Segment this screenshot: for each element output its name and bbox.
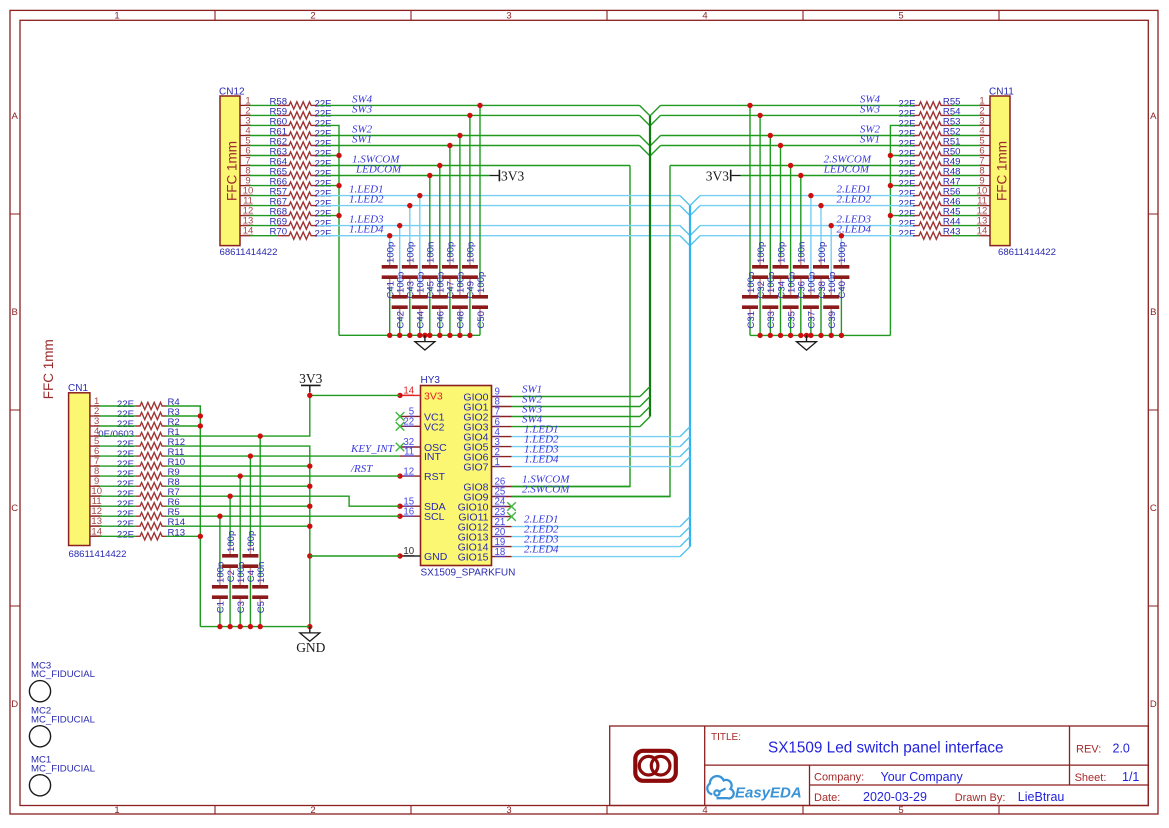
svg-text:MC_FIDUCIAL: MC_FIDUCIAL [31, 714, 96, 725]
resistor R47 value 22E [898, 177, 960, 190]
capacitor C50 value 100p [472, 272, 488, 329]
wire GIO13 to bus [512, 536, 681, 538]
capacitor C47 value 100p [442, 242, 458, 299]
svg-text:FFC 1mm: FFC 1mm [225, 141, 240, 201]
svg-text:1: 1 [495, 457, 500, 468]
wire column C2 [229, 496, 231, 626]
capacitor C34 value 100p [773, 242, 789, 299]
bus entry 1.LED1 left [680, 196, 690, 206]
svg-text:2: 2 [310, 10, 315, 21]
pin 22 VC2 (left) [396, 417, 445, 434]
resistor R67 value 22E [270, 197, 332, 210]
wire column C38 [820, 206, 822, 336]
wire column C31 [749, 105, 751, 335]
svg-text:C33: C33 [766, 311, 777, 329]
svg-text:1.LED4: 1.LED4 [349, 224, 384, 236]
resistor R10 value 22E [117, 457, 185, 470]
wire GIO0 to bus [512, 396, 641, 398]
svg-text:68611414422: 68611414422 [69, 549, 127, 560]
wire column C48 [459, 136, 461, 336]
pin 16 SCL (left) [397, 506, 444, 523]
bus entry GIO3 [640, 417, 650, 427]
resistor R63 value 22E [270, 147, 332, 160]
wire GIO7 to bus [512, 466, 681, 468]
svg-text:12: 12 [403, 466, 414, 477]
svg-text:2.SWCOM: 2.SWCOM [522, 483, 570, 495]
resistor R44 value 22E [898, 217, 961, 230]
wire column C3 [239, 476, 241, 626]
wire column C1 [219, 516, 221, 626]
resistor R56 value 22E [898, 187, 960, 200]
junction dot column C45 top [427, 173, 432, 178]
svg-text:2020-03-29: 2020-03-29 [863, 790, 927, 804]
svg-text:2.LED4: 2.LED4 [524, 543, 559, 555]
svg-text:5: 5 [898, 10, 903, 21]
wire GIO6 to bus [512, 456, 681, 458]
connector CN11 [977, 87, 1056, 259]
company logo (two rings) [635, 751, 676, 781]
svg-text:FFC 1mm: FFC 1mm [995, 141, 1010, 201]
capacitor C49 value 100p [462, 242, 478, 299]
svg-text:100p: 100p [776, 242, 787, 263]
wire column C33 [769, 136, 771, 336]
capacitor C41 value 100p [382, 242, 398, 299]
resistor R13 value 22E [117, 527, 185, 540]
svg-text:22: 22 [403, 417, 414, 428]
resistor R2 value 22E [117, 417, 180, 430]
svg-text:A: A [1150, 111, 1157, 122]
svg-text:3V3: 3V3 [706, 169, 729, 184]
connector CN12 [219, 87, 277, 259]
svg-text:GND: GND [296, 640, 325, 655]
capacitor C46 value 100p [432, 272, 448, 329]
svg-text:SW3: SW3 [860, 103, 881, 115]
resistor R1 value 0E/0603 [98, 427, 180, 440]
svg-text:/RST: /RST [350, 463, 373, 475]
fiducial MC2 MC_FIDUCIAL [29, 706, 95, 747]
wire LEDCOM (right segment) [741, 175, 914, 177]
svg-text:LieBtrau: LieBtrau [1018, 790, 1065, 804]
bus entry GIO4 [680, 427, 690, 437]
svg-text:Company:: Company: [814, 772, 864, 784]
capacitor C40 value 100p [833, 242, 849, 299]
svg-text:3V3: 3V3 [299, 371, 322, 386]
svg-text:100p: 100p [386, 242, 397, 263]
op-amp: IC HY3 SX1509_SPARKFUN body [421, 375, 516, 579]
svg-text:1/1: 1/1 [1122, 770, 1139, 784]
svg-text:LEDCOM: LEDCOM [823, 164, 870, 176]
resistor R6 value 22E [117, 497, 180, 510]
wire column C39 [830, 226, 832, 336]
svg-text:C1: C1 [216, 601, 227, 613]
wire 2.LED4 (right segment) [700, 235, 913, 237]
capacitor C38 value 100p [813, 242, 829, 299]
wire GIO1 to bus [512, 406, 641, 408]
ground (left cap bank) [415, 335, 435, 350]
fiducial MC3 MC_FIDUCIAL [29, 660, 95, 701]
pin 9 GIO0 (right) [463, 387, 511, 404]
svg-text:CN1: CN1 [68, 383, 88, 394]
svg-text:100p: 100p [817, 242, 828, 263]
resistor R50 value 22E [898, 147, 960, 160]
svg-text:2.LED2: 2.LED2 [836, 194, 871, 206]
svg-text:100p: 100p [756, 242, 767, 263]
wire right cap bank ground rail [750, 334, 890, 336]
junction dot column C44 top [417, 193, 422, 198]
bus entry SW3 left [640, 115, 651, 126]
bus entry 1.LED3 left [680, 226, 690, 236]
svg-text:4: 4 [702, 805, 707, 816]
junction dot column C50 top [477, 103, 482, 108]
svg-text:Date:: Date: [814, 792, 840, 804]
svg-text:D: D [1150, 699, 1157, 710]
bus entry 2.LED1 right [690, 196, 700, 206]
resistor R49 value 22E [898, 157, 960, 170]
pin 26 GIO8 (right) [463, 477, 511, 494]
svg-text:C50: C50 [476, 311, 487, 329]
pin 7 GIO2 (right) [463, 407, 511, 424]
pin 10 GND (left) [397, 546, 447, 563]
bus entry 2.LED2 right [690, 206, 700, 216]
bus entry GIO13 [680, 527, 690, 537]
svg-text:RST: RST [424, 471, 446, 483]
junction dot 3V3 [307, 393, 312, 398]
wire 2.LED3 (right segment) [700, 225, 913, 227]
resistor R52 value 22E [898, 127, 960, 140]
wire SW3 (right segment) [661, 114, 914, 116]
resistor R5 value 22E [117, 507, 180, 520]
svg-text:INT: INT [424, 451, 442, 463]
svg-text:100n: 100n [797, 242, 808, 263]
wire 2.SWCOM vertical to GIO9 [512, 166, 671, 497]
resistor R45 value 22E [898, 207, 960, 220]
power flag 3V3 (top) [299, 371, 322, 393]
wire column C32 [759, 115, 761, 335]
pin 19 GIO14 (right) [458, 537, 512, 554]
svg-text:100n: 100n [426, 242, 437, 263]
wire column C50 [479, 105, 481, 335]
svg-text:MC_FIDUCIAL: MC_FIDUCIAL [31, 763, 96, 774]
svg-text:100p: 100p [476, 272, 487, 293]
svg-text:1.LED2: 1.LED2 [349, 194, 384, 206]
wire GIO5 to bus [512, 446, 681, 448]
resistor R4 value 22E [117, 397, 181, 410]
svg-text:SW1: SW1 [352, 134, 372, 146]
capacitor C1 value 100p [212, 562, 228, 614]
svg-text:3V3: 3V3 [424, 390, 443, 402]
wire column C4 [249, 456, 251, 626]
wire SW1 (left segment) [317, 145, 640, 147]
wire GIO14 to bus [512, 546, 681, 548]
bus entry SW2 left [640, 136, 651, 147]
svg-text:C: C [1150, 503, 1157, 514]
ground (right cap bank) [797, 335, 817, 350]
svg-text:22E: 22E [117, 529, 134, 540]
svg-text:3: 3 [506, 10, 511, 21]
capacitor C36 value 100n [793, 242, 809, 299]
wire SW3 (left segment) [317, 114, 640, 116]
capacitor C32 value 100p [752, 242, 768, 299]
blue bus trunk [689, 206, 691, 547]
resistor R59 value 22E [270, 106, 332, 119]
power flag 3V3 (right LEDCOM) [706, 169, 741, 184]
wire column C35 [790, 166, 792, 336]
junction dots right ground rail [757, 333, 844, 338]
bus entry SW1 left [640, 146, 651, 157]
pin 1 GIO7 (right) [463, 457, 511, 474]
wire GIO2 to bus [512, 416, 641, 418]
fiducial MC1 MC_FIDUCIAL [29, 755, 95, 796]
pin 21 GIO12 (right) [458, 517, 512, 534]
resistor R3 value 22E [117, 407, 180, 420]
bus entry GIO7 [680, 457, 690, 467]
svg-text:Your Company: Your Company [881, 770, 964, 784]
resistor R60 value 22E [270, 116, 332, 129]
capacitor C45 value 100n [422, 242, 438, 299]
resistor R68 value 22E [270, 207, 332, 220]
resistor R9 value 22E [117, 467, 180, 480]
junction dot column C1 top [217, 514, 222, 519]
svg-text:68611414422: 68611414422 [998, 247, 1056, 258]
wire GIO3 to bus [512, 426, 641, 428]
wire CN12 pin stubs [250, 105, 278, 235]
resistor R12 value 22E [117, 437, 185, 450]
wire GIO15 to bus [512, 556, 681, 558]
svg-text:1.LED4: 1.LED4 [524, 453, 559, 465]
svg-text:C46: C46 [436, 311, 447, 329]
bus entry GIO2 [640, 407, 650, 417]
pin 4 GIO4 (right) [463, 427, 511, 444]
wire GIO8 stub [512, 486, 631, 488]
svg-text:REV:: REV: [1076, 744, 1101, 756]
bus entry SW3 right [650, 115, 661, 126]
junction dot column C49 top [467, 113, 472, 118]
svg-text:GIO15: GIO15 [458, 552, 489, 564]
resistor R57 value 22E [270, 187, 332, 200]
capacitor C2 value 100p [222, 531, 238, 583]
svg-text:SX1509_SPARKFUN: SX1509_SPARKFUN [421, 568, 516, 579]
svg-text:4: 4 [702, 10, 707, 21]
svg-text:SCL: SCL [424, 511, 445, 523]
svg-text:3: 3 [506, 805, 511, 816]
wire CN1 ground pins 5,7,9,11,13 [166, 446, 310, 626]
resistor R54 value 22E [898, 106, 961, 119]
capacitor C35 value 100p [783, 272, 799, 329]
wire CN11 ground pins 3,6,9,12 [890, 125, 913, 335]
wire column C49 [469, 115, 471, 335]
svg-text:100n: 100n [256, 562, 267, 583]
svg-text:C: C [11, 503, 18, 514]
svg-text:C37: C37 [807, 311, 818, 329]
svg-text:C42: C42 [396, 311, 407, 329]
wire CN1 pin stubs [100, 406, 136, 536]
svg-text:C31: C31 [746, 311, 757, 329]
svg-text:SW3: SW3 [352, 103, 373, 115]
wire GIO4 to bus [512, 436, 681, 438]
junction dot column C43 top [407, 203, 412, 208]
svg-text:18: 18 [495, 547, 506, 558]
pin 20 GIO13 (right) [458, 527, 512, 544]
wire KEY_INT (R11 to INT) [166, 455, 400, 457]
resistor R62 value 22E [270, 137, 332, 150]
svg-text:A: A [12, 111, 19, 122]
wire SW4 (right segment) [661, 104, 914, 106]
resistor R58 value 22E [270, 96, 332, 109]
junction dot column C48 top [457, 133, 462, 138]
svg-text:C39: C39 [827, 311, 838, 329]
svg-text:B: B [12, 307, 18, 318]
capacitor C5 value 100n [252, 562, 268, 614]
capacitor C31 value 100p [742, 272, 758, 329]
pin 15 SDA (left) [397, 496, 445, 513]
bus entry SW1 right [650, 146, 661, 157]
bus entry 1.LED4 left [680, 236, 690, 246]
resistor R14 value 22E [117, 517, 186, 530]
capacitor C44 value 100p [412, 272, 428, 329]
svg-text:22E: 22E [898, 229, 915, 240]
wire 1.SWCOM horizontal [317, 165, 630, 167]
resistor R43 value 22E [898, 227, 960, 240]
svg-text:22E: 22E [315, 229, 332, 240]
resistor R70 value 22E [270, 227, 332, 240]
junction dot column C35 top [788, 163, 793, 168]
wire LEDCOM (left segment) [317, 175, 490, 177]
resistor R66 value 22E [270, 177, 332, 190]
svg-text:CN11: CN11 [989, 87, 1014, 98]
green bus trunk [649, 116, 651, 417]
wire 2.SWCOM horizontal [670, 165, 913, 167]
bus entry 2.LED4 right [690, 236, 700, 246]
svg-text:C3: C3 [236, 601, 247, 613]
svg-text:C44: C44 [416, 310, 427, 328]
svg-text:GND: GND [424, 551, 448, 563]
junction dots CN11 ground vertical [888, 153, 893, 219]
resistor R48 value 22E [898, 167, 960, 180]
junction dot column C40 top [839, 233, 844, 238]
junction dot column C42 top [397, 223, 402, 228]
bus entry 2.LED3 right [690, 226, 700, 236]
junction dots CN1 right ground vertical [307, 463, 312, 629]
bus entry GIO15 [680, 547, 690, 557]
capacitor C48 value 100p [452, 272, 468, 329]
junction dot column C3 top [238, 473, 243, 478]
svg-text:100p: 100p [466, 242, 477, 263]
wire 3V3 net row (R1 to flag) [166, 395, 400, 436]
wire CN11 pin stubs [952, 105, 980, 235]
svg-text:1: 1 [114, 805, 119, 816]
resistor R61 value 22E [270, 127, 332, 140]
wire column C46 [439, 166, 441, 336]
wire column C43 [409, 206, 411, 336]
svg-text:2.0: 2.0 [1113, 742, 1130, 756]
wire 1.LED2 (left segment) [317, 205, 680, 207]
svg-text:MC_FIDUCIAL: MC_FIDUCIAL [31, 669, 96, 680]
pin 12 RST (left) [397, 466, 445, 483]
wire 2.LED1 (right segment) [700, 195, 913, 197]
svg-text:100p: 100p [406, 242, 417, 263]
junction dot column C41 top [387, 233, 392, 238]
title block [610, 726, 1149, 806]
junction dot column C33 top [768, 133, 773, 138]
bus entry 1.LED2 left [680, 206, 690, 216]
svg-text:2: 2 [310, 805, 315, 816]
power flag 3V3 (left LEDCOM) [490, 169, 525, 184]
EasyEDA logo [707, 776, 801, 801]
svg-text:100p: 100p [226, 531, 237, 552]
capacitor C39 value 100p [823, 272, 839, 329]
capacitor C37 value 100p [803, 272, 819, 329]
svg-text:1: 1 [114, 10, 119, 21]
svg-text:Drawn By:: Drawn By: [955, 792, 1006, 804]
wire GIO9 stub [512, 496, 671, 498]
pin 2 GIO6 (right) [463, 447, 511, 464]
wire SW2 (right segment) [661, 135, 914, 137]
bus entry GIO1 [640, 397, 650, 407]
junction dot column C46 top [437, 163, 442, 168]
svg-text:B: B [1150, 307, 1156, 318]
connector CN1 [68, 383, 126, 560]
wire /RST (R9 to RST) [166, 475, 400, 477]
svg-text:C5: C5 [256, 601, 267, 613]
resistor R69 value 22E [270, 217, 332, 230]
wire column C44 [419, 196, 421, 336]
wire left cap bank ground rail [339, 334, 480, 336]
pin 23 GIO11 (right) [458, 507, 515, 524]
svg-text:100p: 100p [837, 242, 848, 263]
svg-text:LEDCOM: LEDCOM [355, 164, 402, 176]
svg-text:C35: C35 [786, 311, 797, 329]
junction dot column C37 top [808, 193, 813, 198]
capacitor C33 value 100p [762, 272, 778, 329]
svg-text:5: 5 [898, 805, 903, 816]
junction dots CN1 ground rail [217, 624, 263, 629]
resistor R7 value 22E [117, 487, 180, 500]
wire 1.SWCOM vertical to GIO8 [512, 166, 631, 487]
wire CN12 ground pins 3,6,9,12 [317, 125, 339, 335]
bus entry GIO0 [640, 387, 650, 397]
pin 3 GIO5 (right) [463, 437, 511, 454]
svg-text:CN12: CN12 [219, 87, 245, 98]
junction dot column C38 top [818, 203, 823, 208]
wire column C40 [840, 236, 842, 336]
pin 11 INT (left) [400, 446, 442, 463]
wire column C45 [429, 176, 431, 336]
junction dot column C36 top [798, 173, 803, 178]
bus entry GIO5 [680, 437, 690, 447]
junction dot column C5 top [258, 433, 263, 438]
bus entry GIO6 [680, 447, 690, 457]
junction dots left ground rail [387, 333, 473, 338]
wire column C41 [389, 236, 391, 336]
svg-text:D: D [11, 699, 18, 710]
svg-text:EasyEDA: EasyEDA [735, 785, 802, 802]
wire column C34 [780, 146, 782, 336]
svg-text:TITLE:: TITLE: [711, 732, 741, 743]
junction dot column C2 top [227, 494, 232, 499]
wire column C47 [449, 146, 451, 336]
wire 1.LED4 (left segment) [317, 235, 680, 237]
svg-text:VC2: VC2 [424, 421, 445, 433]
svg-text:3V3: 3V3 [501, 169, 524, 184]
junction dot column C31 top [747, 103, 752, 108]
wire column C37 [810, 196, 812, 336]
bus entry SW2 right [650, 136, 661, 147]
svg-text:KEY_INT: KEY_INT [350, 443, 395, 455]
svg-text:SX1509 Led switch panel interf: SX1509 Led switch panel interface [768, 740, 1004, 757]
resistor R8 value 22E [117, 477, 180, 490]
junction dots CN1 left ground vertical [198, 413, 203, 539]
pin 32 OSC (left) [396, 437, 447, 454]
